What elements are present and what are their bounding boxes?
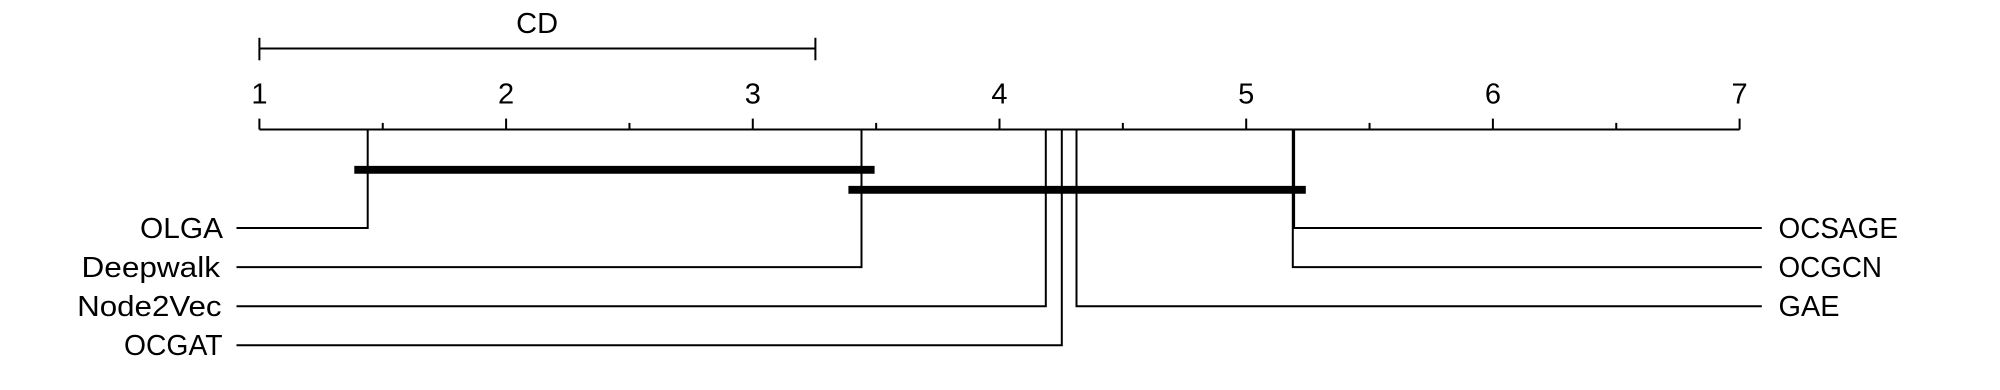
minor tick 5.5 xyxy=(1369,123,1371,130)
major tick 5 xyxy=(1245,119,1247,130)
major tick 2 xyxy=(505,119,507,130)
CD bracket line xyxy=(259,48,815,50)
svg-text:GAE: GAE xyxy=(1779,291,1840,323)
svg-text:OCGCN: OCGCN xyxy=(1779,252,1883,284)
OCGAT line xyxy=(237,129,1062,346)
axis line xyxy=(259,129,1739,131)
svg-text:2: 2 xyxy=(498,79,514,111)
OCSAGE line xyxy=(1294,129,1762,229)
major tick 1 xyxy=(258,119,260,130)
CD bracket right serif xyxy=(814,38,816,61)
svg-text:5: 5 xyxy=(1238,79,1254,111)
minor tick 2.5 xyxy=(628,123,630,130)
svg-text:OCSAGE: OCSAGE xyxy=(1779,213,1899,245)
Deepwalk line xyxy=(237,129,862,268)
svg-text:Deepwalk: Deepwalk xyxy=(82,252,221,284)
OCGCN line xyxy=(1293,129,1762,268)
minor tick 3.5 xyxy=(875,123,877,130)
major tick 6 xyxy=(1492,119,1494,130)
svg-text:3: 3 xyxy=(745,79,761,111)
GAE line xyxy=(1077,129,1762,307)
major tick 4 xyxy=(999,119,1001,130)
minor tick 4.5 xyxy=(1122,123,1124,130)
clique bar 1 (OLGA-Deepwalk) xyxy=(354,166,874,174)
major tick 7 xyxy=(1739,119,1741,130)
svg-text:CD: CD xyxy=(516,8,558,40)
svg-text:Node2Vec: Node2Vec xyxy=(77,291,222,323)
svg-text:7: 7 xyxy=(1732,79,1748,111)
svg-text:1: 1 xyxy=(251,79,267,111)
OLGA line xyxy=(237,129,368,229)
svg-text:OCGAT: OCGAT xyxy=(124,330,223,362)
svg-text:6: 6 xyxy=(1485,79,1501,111)
svg-text:4: 4 xyxy=(991,79,1007,111)
major tick 3 xyxy=(752,119,754,130)
Node2Vec line xyxy=(237,129,1046,307)
minor tick 6.5 xyxy=(1615,123,1617,130)
CD bracket left serif xyxy=(258,38,260,61)
clique bar 2 (Deepwalk-OCSAGE) xyxy=(848,186,1305,194)
minor tick 1.5 xyxy=(382,123,384,130)
svg-text:OLGA: OLGA xyxy=(140,213,224,245)
